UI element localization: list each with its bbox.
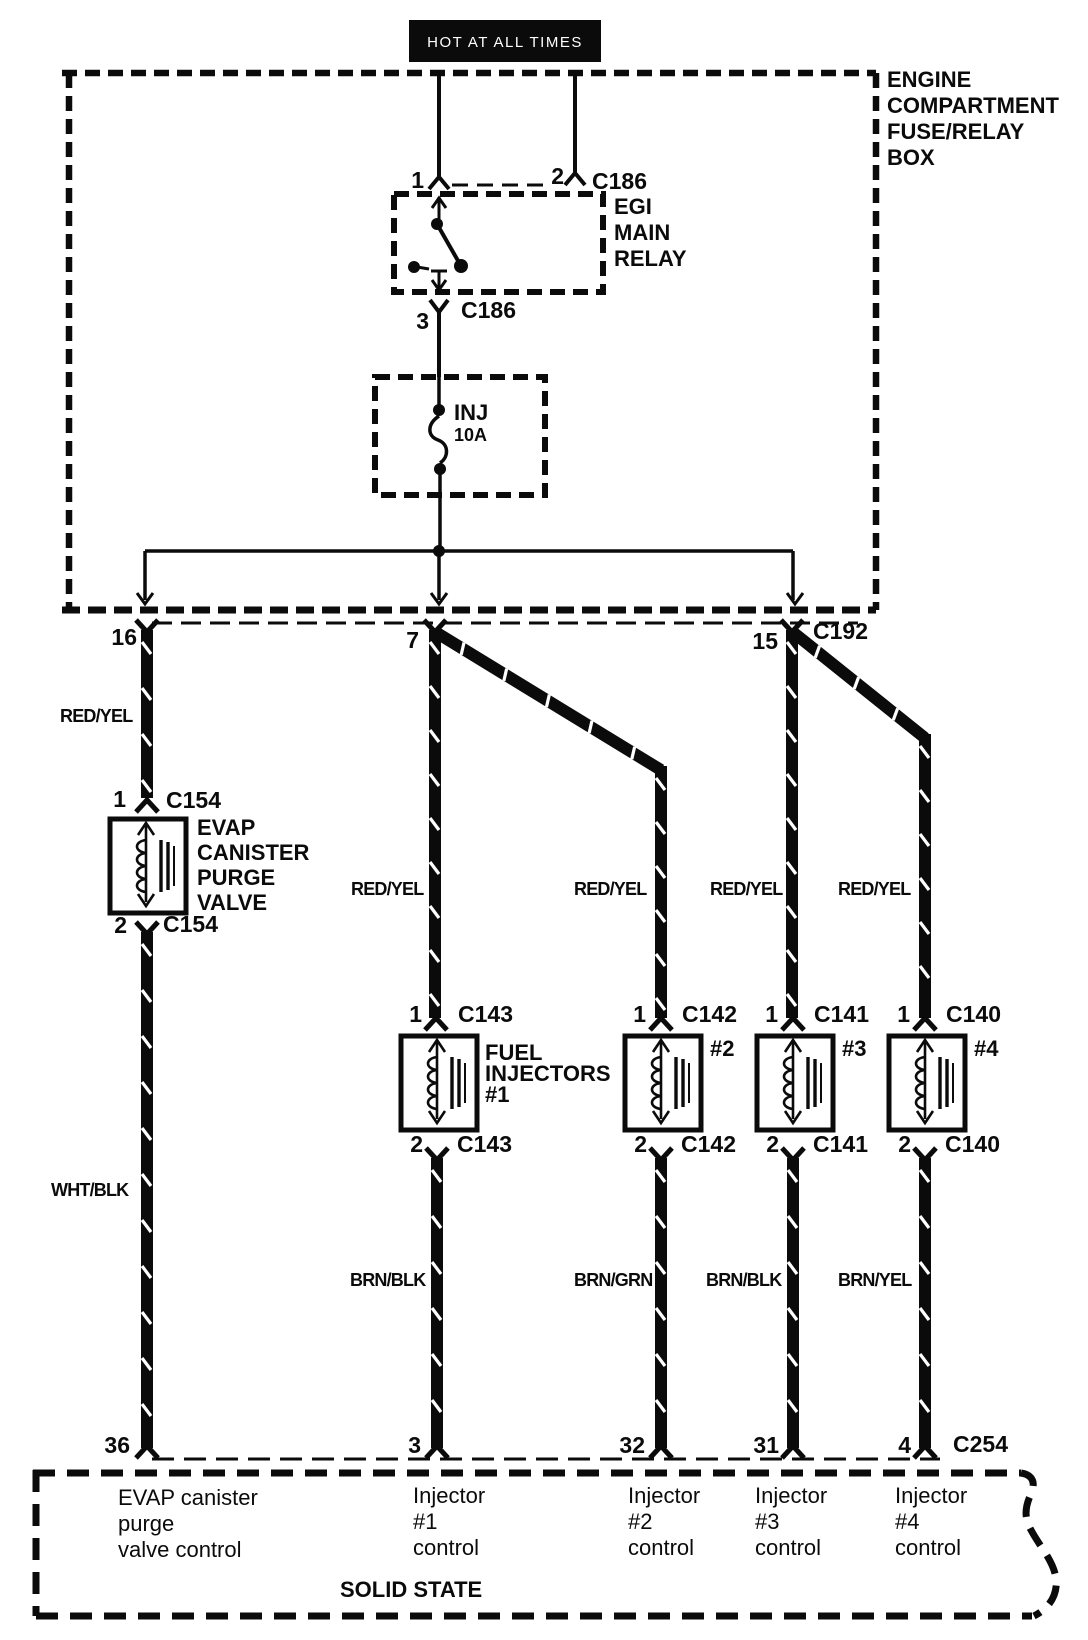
svg-text:control: control [895, 1535, 961, 1560]
svg-text:EVAP canister: EVAP canister [118, 1485, 258, 1510]
svg-text:#1: #1 [413, 1509, 437, 1534]
svg-text:C142: C142 [682, 1001, 737, 1027]
svg-text:C192: C192 [813, 618, 868, 644]
svg-text:EVAP: EVAP [197, 815, 255, 840]
svg-text:15: 15 [752, 628, 778, 654]
svg-text:COMPARTMENT: COMPARTMENT [887, 93, 1059, 118]
svg-text:10A: 10A [454, 425, 487, 445]
svg-text:BRN/BLK: BRN/BLK [350, 1270, 426, 1290]
svg-text:control: control [628, 1535, 694, 1560]
svg-text:CANISTER: CANISTER [197, 840, 310, 865]
svg-text:1: 1 [113, 786, 126, 812]
svg-text:3: 3 [416, 308, 429, 334]
svg-text:3: 3 [408, 1432, 421, 1458]
svg-text:RED/YEL: RED/YEL [574, 879, 647, 899]
svg-text:INJ: INJ [454, 400, 488, 425]
svg-text:control: control [413, 1535, 479, 1560]
svg-text:#4: #4 [974, 1036, 999, 1061]
svg-text:RED/YEL: RED/YEL [351, 879, 424, 899]
svg-text:HOT AT ALL TIMES: HOT AT ALL TIMES [427, 34, 583, 51]
svg-text:Injector: Injector [755, 1483, 827, 1508]
svg-text:BOX: BOX [887, 145, 935, 170]
svg-text:#2: #2 [710, 1036, 734, 1061]
svg-text:Injector: Injector [895, 1483, 967, 1508]
svg-text:C140: C140 [945, 1131, 1000, 1157]
svg-text:7: 7 [406, 627, 419, 653]
svg-text:C141: C141 [813, 1131, 868, 1157]
svg-text:purge: purge [118, 1511, 174, 1536]
svg-text:BRN/YEL: BRN/YEL [838, 1270, 912, 1290]
svg-text:4: 4 [898, 1432, 911, 1458]
svg-text:1: 1 [633, 1001, 646, 1027]
svg-text:16: 16 [111, 624, 137, 650]
svg-text:C142: C142 [681, 1131, 736, 1157]
svg-text:36: 36 [104, 1432, 130, 1458]
svg-text:ENGINE: ENGINE [887, 67, 971, 92]
svg-text:31: 31 [753, 1432, 779, 1458]
svg-text:1: 1 [897, 1001, 910, 1027]
svg-text:BRN/GRN: BRN/GRN [574, 1270, 652, 1290]
svg-text:SOLID STATE: SOLID STATE [340, 1577, 482, 1602]
svg-text:#2: #2 [628, 1509, 652, 1534]
svg-text:1: 1 [765, 1001, 778, 1027]
svg-text:2: 2 [634, 1131, 647, 1157]
svg-text:RED/YEL: RED/YEL [710, 879, 783, 899]
svg-text:C143: C143 [458, 1001, 513, 1027]
svg-text:FUSE/RELAY: FUSE/RELAY [887, 119, 1025, 144]
svg-text:C186: C186 [592, 168, 647, 194]
svg-text:#3: #3 [755, 1509, 779, 1534]
svg-text:RED/YEL: RED/YEL [838, 879, 911, 899]
svg-text:RED/YEL: RED/YEL [60, 706, 133, 726]
svg-text:C141: C141 [814, 1001, 869, 1027]
svg-text:C186: C186 [461, 297, 516, 323]
svg-text:EGI: EGI [614, 194, 652, 219]
svg-text:control: control [755, 1535, 821, 1560]
svg-text:2: 2 [898, 1131, 911, 1157]
svg-text:C154: C154 [166, 787, 221, 813]
svg-text:2: 2 [766, 1131, 779, 1157]
svg-text:C140: C140 [946, 1001, 1001, 1027]
svg-text:C254: C254 [953, 1431, 1008, 1457]
svg-text:2: 2 [410, 1131, 423, 1157]
svg-text:BRN/BLK: BRN/BLK [706, 1270, 782, 1290]
svg-text:#3: #3 [842, 1036, 866, 1061]
svg-text:valve control: valve control [118, 1537, 242, 1562]
svg-text:#4: #4 [895, 1509, 919, 1534]
svg-text:Injector: Injector [413, 1483, 485, 1508]
svg-text:2: 2 [551, 163, 564, 189]
svg-text:RELAY: RELAY [614, 246, 687, 271]
svg-text:1: 1 [411, 167, 424, 193]
svg-text:2: 2 [114, 912, 127, 938]
svg-text:VALVE: VALVE [197, 890, 267, 915]
svg-text:#1: #1 [485, 1082, 509, 1107]
svg-text:Injector: Injector [628, 1483, 700, 1508]
svg-text:C143: C143 [457, 1131, 512, 1157]
svg-text:1: 1 [409, 1001, 422, 1027]
svg-text:MAIN: MAIN [614, 220, 670, 245]
svg-text:32: 32 [619, 1432, 645, 1458]
svg-text:WHT/BLK: WHT/BLK [51, 1180, 129, 1200]
svg-text:PURGE: PURGE [197, 865, 275, 890]
